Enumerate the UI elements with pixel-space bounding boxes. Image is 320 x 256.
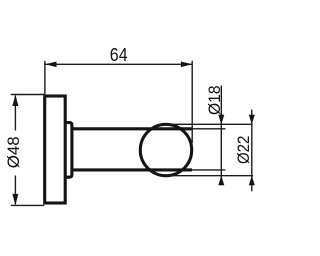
dimension line 64 <box>45 63 192 65</box>
wire: extension line left of 64 dim <box>44 61 46 96</box>
arrowhead 64 left <box>45 62 56 68</box>
wire: extension line right of 64 dim <box>191 61 193 143</box>
svg-text:Ø22: Ø22 <box>234 136 253 165</box>
arrowhead Ø48 top <box>12 95 18 106</box>
extension line ball top tangent <box>166 123 253 125</box>
dimension line Ø48 lower segment <box>14 176 16 205</box>
dimension line Ø22 <box>251 110 253 192</box>
collar behind stem <box>65 123 72 178</box>
arrowhead 64 right <box>181 62 192 68</box>
svg-text:Ø18: Ø18 <box>205 85 224 115</box>
extension line stem top (Ø18) <box>192 128 226 130</box>
wall plate (flange, side view) <box>45 96 192 203</box>
dimension line Ø18 <box>220 86 222 186</box>
extension line top of plate for Ø48 <box>11 94 44 96</box>
ball of hook <box>140 124 191 175</box>
stem bottom edge <box>72 168 192 171</box>
arrowhead Ø18 upper <box>218 115 224 125</box>
extension line ball bottom tangent <box>166 175 253 177</box>
arrowhead Ø48 bottom <box>12 194 18 205</box>
extension line stem bottom (Ø18) <box>192 169 225 171</box>
arrowhead Ø22 lower <box>249 176 255 186</box>
svg-text:64: 64 <box>110 45 128 65</box>
arrowhead Ø22 upper <box>249 115 255 125</box>
dimension line Ø48 upper segment <box>14 96 16 131</box>
arrowhead Ø18 lower <box>218 176 224 186</box>
svg-text:Ø48: Ø48 <box>4 136 23 168</box>
stem top edge <box>72 127 192 130</box>
extension line bottom of plate for Ø48 <box>11 204 45 206</box>
